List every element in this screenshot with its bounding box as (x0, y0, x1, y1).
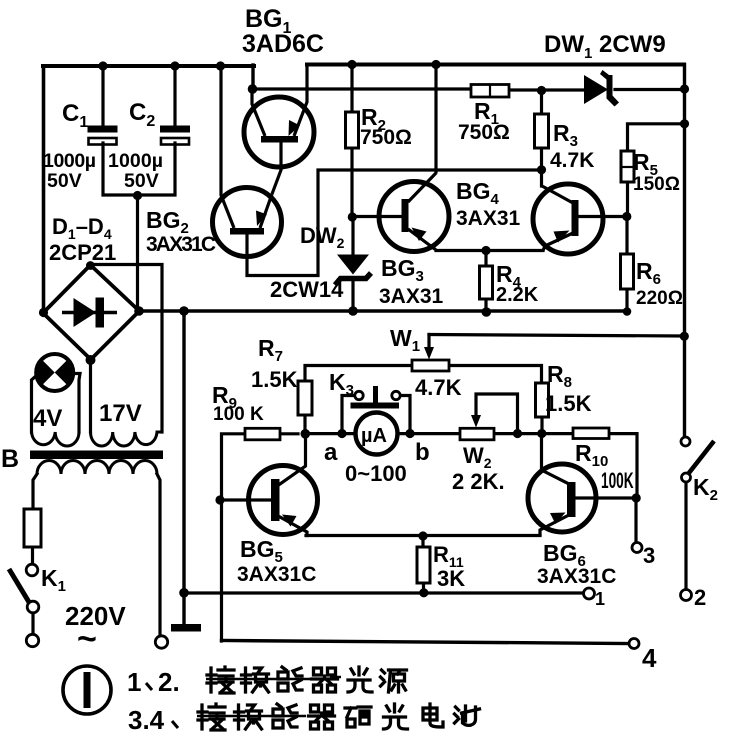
svg-text:DW2: DW2 (300, 223, 345, 251)
legend figure mark circle (63, 666, 111, 714)
wire W1 wiper line to right rail (429, 335, 684, 337)
wire C-bottom to bridge right vertex (136, 195, 139, 310)
svg-text:150Ω: 150Ω (633, 174, 680, 195)
fuse (24, 509, 41, 547)
svg-text:1: 1 (595, 589, 605, 609)
svg-text:R6: R6 (636, 258, 661, 288)
wire K3 right drop (400, 396, 410, 434)
svg-text:100 K: 100 K (213, 404, 264, 425)
wire top-right rail (307, 63, 684, 67)
resistor R6 (621, 254, 634, 289)
pushbutton K3 (351, 386, 401, 409)
wire BG5 collector riser (280, 434, 306, 484)
svg-text:W1: W1 (390, 325, 420, 355)
svg-text:50V: 50V (124, 170, 159, 192)
zener diode DW1 (584, 70, 619, 107)
wire R7 top corner to W1 (305, 366, 412, 382)
wire emitter line y535 BG5-BG6 (306, 534, 540, 537)
legend comma tick line2 (172, 721, 178, 728)
wire terminal1 line y593 (184, 591, 583, 594)
svg-text:1.5K: 1.5K (251, 367, 298, 392)
wire R9 right lead (280, 432, 298, 435)
wire W2 to R10 segment (494, 432, 573, 435)
svg-text:0~100: 0~100 (345, 461, 407, 486)
wire R6 bottom lead (625, 289, 628, 312)
svg-text:K3: K3 (329, 369, 354, 399)
svg-text:C2: C2 (129, 99, 155, 130)
svg-text:DW1 2CW9: DW1 2CW9 (544, 31, 666, 62)
wire terminal3 drop (634, 498, 637, 543)
resistor R1 (471, 85, 509, 98)
transistor BG6 (528, 464, 596, 532)
svg-text:1000µ: 1000µ (108, 150, 163, 172)
terminal 220V right (155, 636, 167, 648)
wire bridge AC top to transformer right (90, 265, 162, 433)
resistor R11 (417, 547, 430, 583)
svg-text:3K: 3K (437, 566, 465, 591)
wire BG3-collector vertical x436 (434, 65, 437, 172)
wire emitter line y250 BG3-BG4 (436, 249, 543, 252)
junction dots lower nets (179, 332, 689, 598)
resistor R4 (480, 266, 493, 299)
wire K3 left drop (342, 396, 355, 434)
wire lamp left lead (32, 375, 38, 432)
svg-text:~: ~ (77, 620, 97, 658)
wire terminal4 line (222, 641, 630, 644)
resistor R5 (621, 151, 634, 182)
switch K1 (9, 564, 39, 613)
wire BG4 base lead to R5/R6 node (580, 215, 627, 218)
junction dots mid nets (39, 212, 631, 365)
svg-text:50V: 50V (47, 170, 82, 192)
wire R4 top lead (484, 251, 487, 267)
svg-text:1: 1 (127, 667, 141, 697)
svg-text:BG5: BG5 (240, 536, 283, 566)
wire R8 bottom lead (540, 417, 543, 434)
terminal 4 (629, 639, 639, 649)
svg-text:K2: K2 (693, 474, 718, 504)
wire R5 bottom lead (626, 182, 629, 217)
svg-text:2 2K.: 2 2K. (452, 469, 505, 494)
svg-text:4: 4 (642, 643, 657, 673)
wire R2 top lead (350, 65, 353, 112)
wire BG5 base lead (220, 498, 271, 501)
terminal 2 (681, 590, 692, 601)
wire left rail vertical (42, 66, 46, 311)
legend comma tick line1 (146, 683, 152, 690)
transistor BG4 (533, 184, 603, 254)
wire ground drop x184 (182, 311, 185, 624)
svg-text:a: a (324, 439, 338, 466)
svg-text:2CW14: 2CW14 (270, 277, 344, 302)
wire right rail vertical (683, 65, 686, 438)
junction dots top rails (98, 60, 440, 200)
transformer secondary 4V winding (32, 432, 80, 446)
svg-text:R3: R3 (553, 120, 578, 150)
wire R11 top lead (421, 536, 424, 547)
wire R11 bottom lead (422, 583, 425, 593)
svg-text:K1: K1 (41, 565, 66, 595)
wire jog from top-left rail down to R1 line (251, 65, 254, 89)
wire R10 right corner down (609, 434, 637, 498)
ground symbol (171, 624, 201, 632)
legend text line1 chars (207, 667, 407, 693)
svg-text:BG3: BG3 (381, 255, 424, 285)
wire main line R7node to meter-a (305, 432, 356, 435)
wire R7 bottom lead (303, 415, 306, 434)
svg-text:4V: 4V (33, 405, 62, 432)
resistor R10 (573, 428, 609, 439)
svg-text:220Ω: 220Ω (636, 288, 683, 309)
junction dots right column (537, 84, 689, 221)
bridge rectifier D1-D4 (43, 265, 139, 360)
transformer secondary 17V winding (91, 432, 163, 446)
capacitor C1 (88, 126, 118, 145)
wire C2 top lead (173, 66, 176, 127)
wire C1 bottom lead and joining bar (103, 143, 175, 195)
svg-text:3.4: 3.4 (128, 705, 165, 735)
wire R3 bottom to BG4 collector (540, 148, 543, 186)
potentiometer W2 (460, 415, 494, 440)
wire R5 top corner (628, 124, 685, 151)
svg-text:W2: W2 (463, 443, 492, 471)
svg-text:3AX31C: 3AX31C (146, 233, 216, 256)
wire lamp right lead (73, 374, 80, 433)
svg-text:1000µ: 1000µ (43, 150, 96, 172)
svg-text:2: 2 (694, 585, 706, 610)
wire R3 top lead (540, 91, 543, 114)
wire BG5 emitter to line y535 (280, 517, 307, 536)
wire R4 bottom lead (484, 299, 487, 312)
wire meter-b to W2 (397, 432, 460, 435)
wire primary left lead to fuse (33, 474, 37, 509)
wire BG2 collector vertical (219, 66, 222, 194)
svg-text:2.2K: 2.2K (496, 284, 539, 306)
wire top-left rail (43, 64, 254, 68)
terminal 220V left (26, 634, 38, 646)
wire BG2-base / BG4 line y170 (247, 170, 541, 276)
svg-text:C1: C1 (62, 100, 88, 131)
svg-text:b: b (415, 439, 430, 466)
svg-text:2.: 2. (158, 667, 180, 697)
wire W2 wiper link (476, 394, 518, 434)
meter uA (356, 413, 398, 455)
wire R6 top lead (625, 217, 628, 255)
capacitor C2 (160, 126, 190, 145)
switch K2 (681, 437, 714, 482)
potentiometer W1 (412, 347, 449, 371)
legend smudge strikes (206, 677, 362, 680)
wire fuse to K1 (31, 547, 34, 564)
legend text line2 chars (198, 704, 480, 730)
svg-text:3AX31: 3AX31 (456, 207, 521, 230)
wire main dc minus line y311 (138, 309, 627, 312)
svg-text:3AX31C: 3AX31C (537, 565, 616, 588)
svg-text:750Ω: 750Ω (458, 121, 510, 144)
wire K2 lower to terminal2 (684, 482, 687, 590)
wire R9 left corner down to BG5 base (222, 434, 246, 641)
svg-text:3: 3 (643, 543, 655, 568)
svg-text:750Ω: 750Ω (360, 126, 412, 149)
svg-text:R8: R8 (547, 361, 572, 391)
svg-text:4.7K: 4.7K (415, 375, 462, 400)
lamp (36, 354, 73, 391)
svg-text:100K: 100K (601, 468, 634, 493)
wire K1 mid link (31, 613, 34, 634)
transistor BG1 (244, 64, 314, 194)
svg-text:R10: R10 (575, 440, 608, 470)
resistor R3 (535, 114, 549, 148)
wire W1 right lead to R8 top (449, 366, 542, 384)
resistor R9 (245, 428, 280, 440)
svg-text:17V: 17V (99, 400, 142, 427)
svg-text:3AX31: 3AX31 (379, 285, 444, 308)
transformer primary winding (37, 461, 157, 475)
wire DW2 bottom lead (351, 280, 354, 311)
terminal 1 (584, 588, 595, 599)
wire primary right lead down to 220V terminal (157, 474, 160, 635)
wire BG6 base riser (542, 434, 568, 484)
svg-text:BG4: BG4 (456, 178, 500, 208)
svg-text:3AD6C: 3AD6C (242, 30, 324, 58)
transistor BG2 (213, 188, 282, 257)
svg-text:3AX31C: 3AX31C (237, 563, 316, 586)
svg-text:1.5K: 1.5K (545, 391, 592, 416)
resistor R8 (536, 383, 549, 417)
transformer core (30, 451, 163, 460)
wire BG3 base lead (353, 215, 401, 218)
wire BG6 collector lead (576, 496, 636, 499)
transistor BG5 (249, 466, 318, 535)
svg-text:B: B (1, 445, 19, 473)
wire DW2 top lead (351, 217, 354, 255)
svg-text:D1–D4: D1–D4 (52, 214, 112, 242)
zener diode DW2 (335, 255, 371, 286)
transistor BG3 (379, 173, 449, 252)
wire W1 wiper stem (427, 335, 430, 353)
wire R1/DW1 line y89 (252, 89, 684, 90)
svg-text:R7: R7 (258, 335, 283, 365)
svg-text:4.7K: 4.7K (550, 149, 594, 172)
terminal 3 (632, 543, 642, 553)
resistor R7 (298, 381, 312, 415)
wire R2 bottom lead (350, 148, 353, 217)
svg-text:2CP21: 2CP21 (49, 240, 116, 265)
wire BG6 emitter drop (540, 516, 567, 535)
svg-text:µA: µA (361, 425, 387, 447)
resistor R2 (346, 112, 359, 148)
wire bridge AC bottom lead (89, 359, 92, 432)
wire C1 top lead (101, 66, 104, 127)
